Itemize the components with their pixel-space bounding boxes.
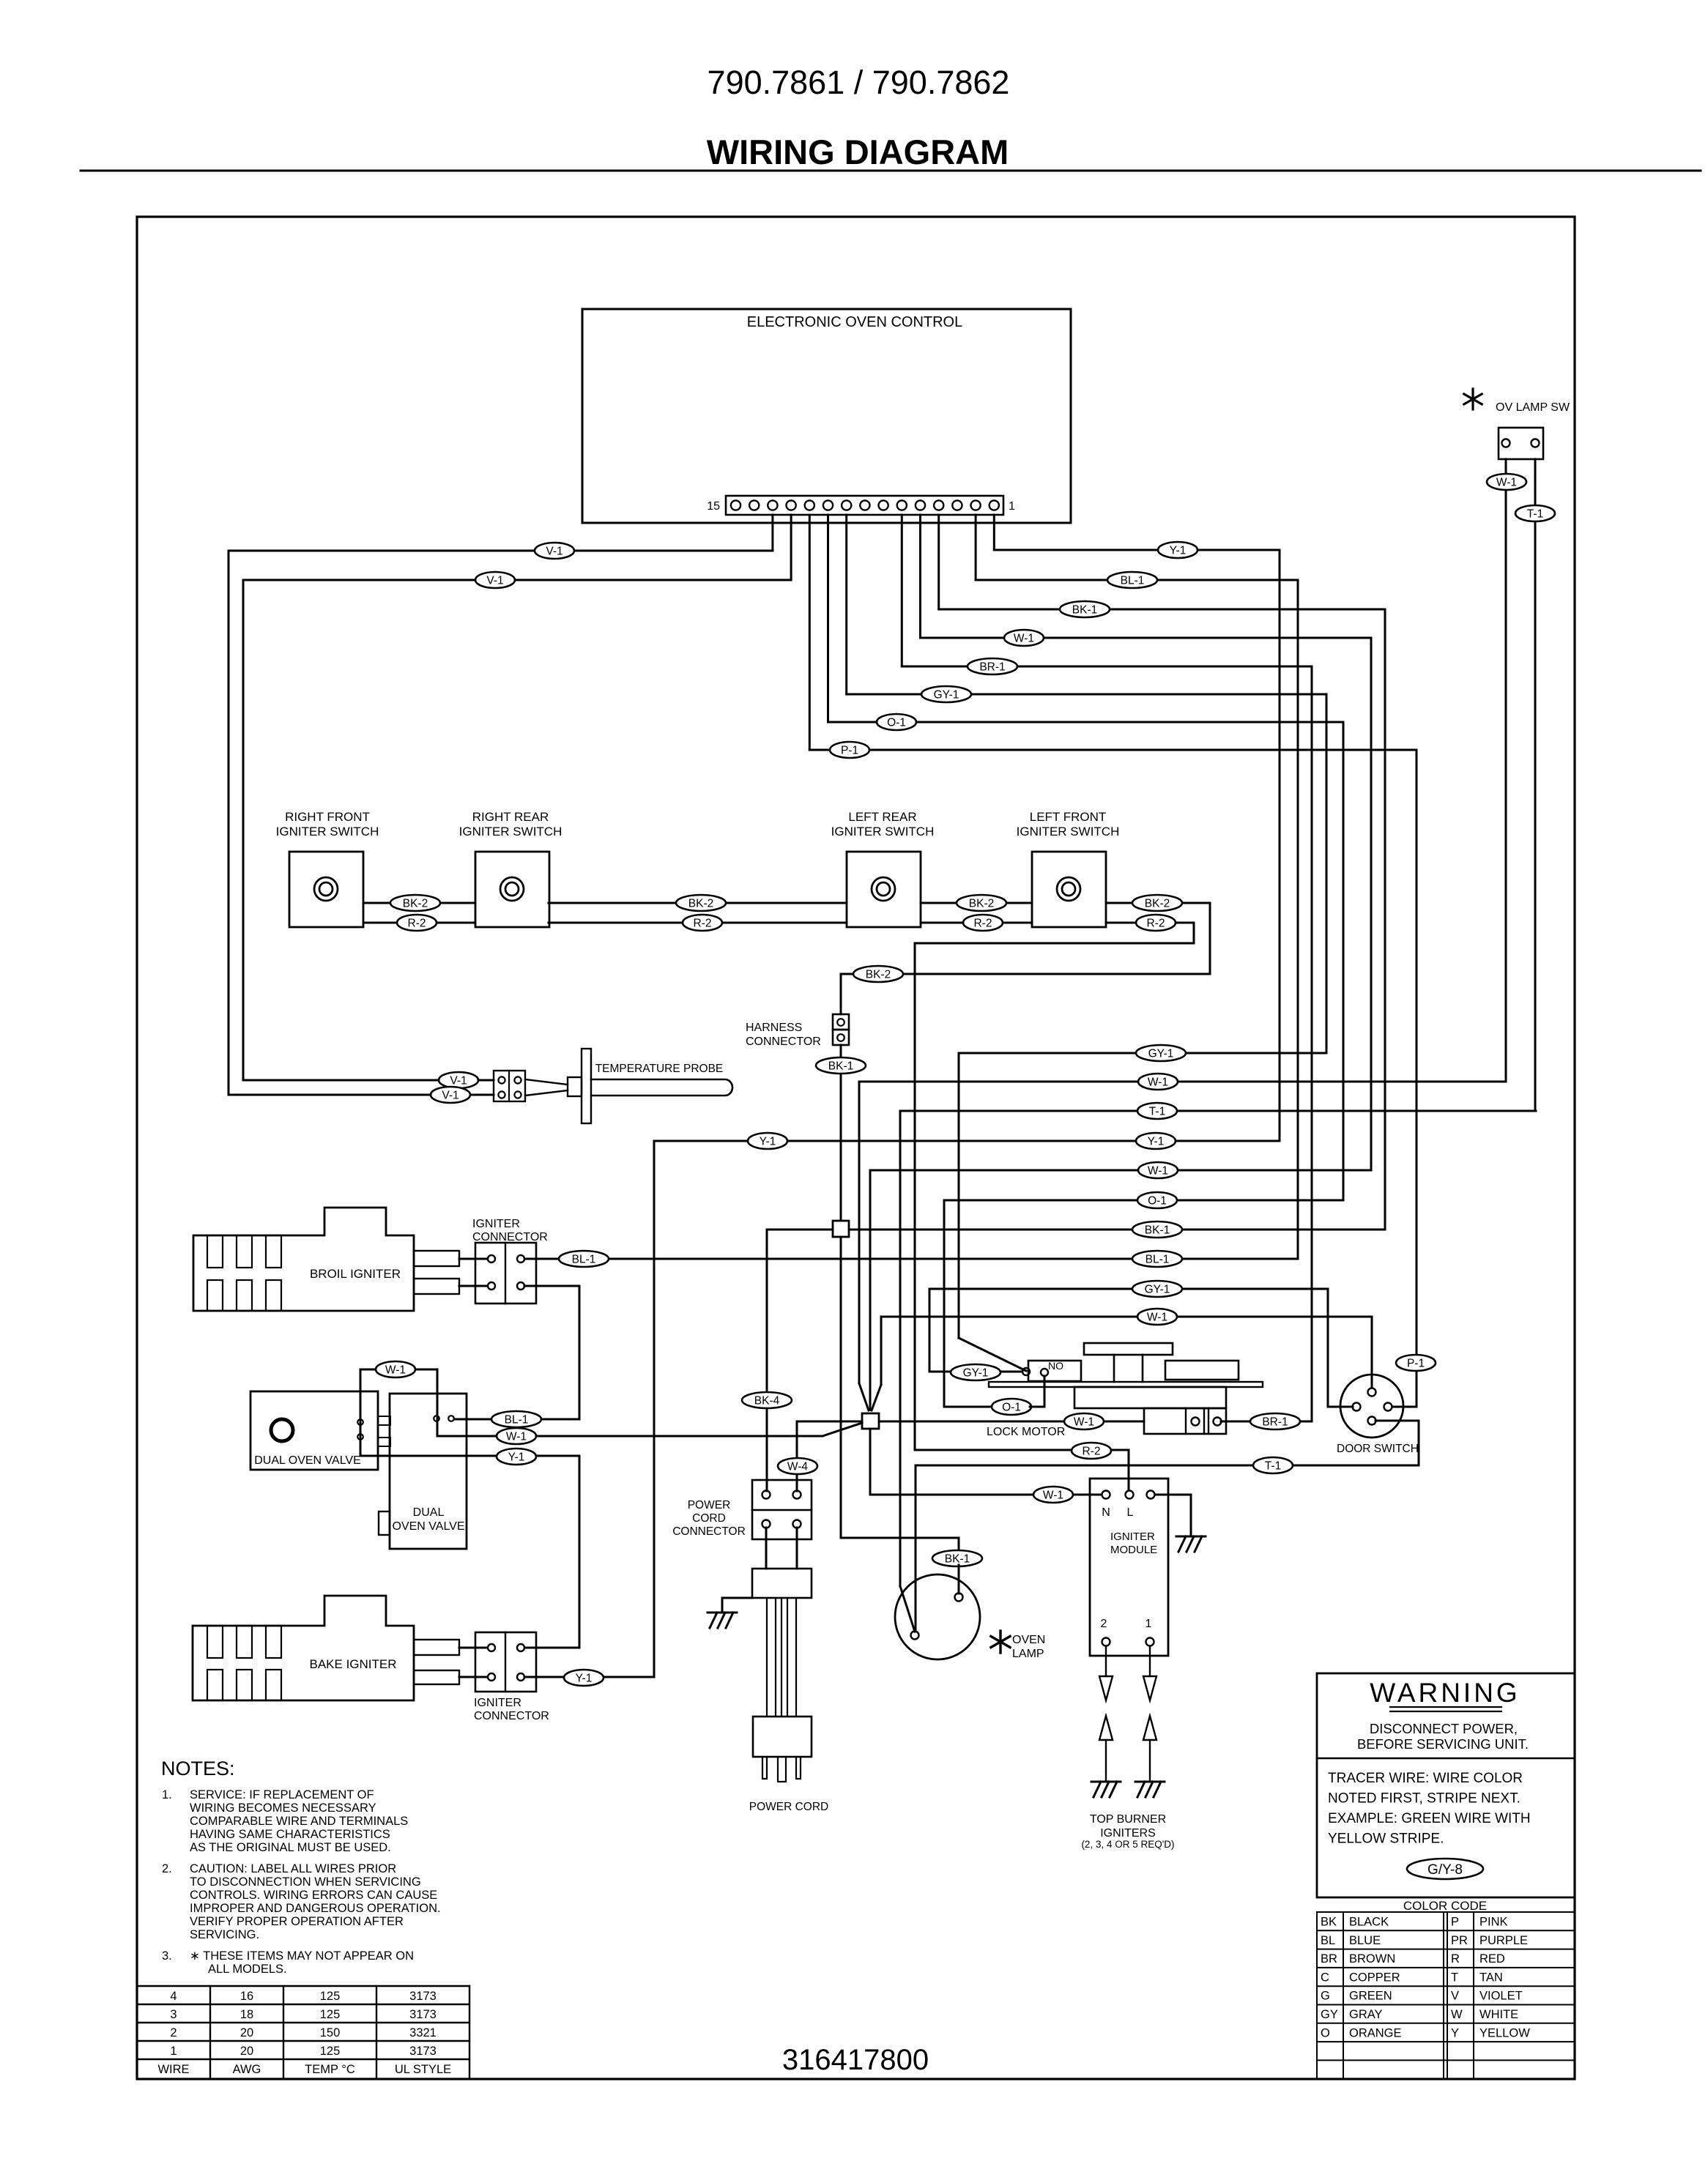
svg-text:150: 150 xyxy=(320,2026,341,2039)
svg-text:3173: 3173 xyxy=(409,1990,437,2003)
svg-text:T-1: T-1 xyxy=(1265,1460,1281,1473)
svg-text:W-1: W-1 xyxy=(1147,1312,1167,1324)
svg-text:NOTED FIRST, STRIPE NEXT.: NOTED FIRST, STRIPE NEXT. xyxy=(1328,1791,1521,1807)
svg-text:P-1: P-1 xyxy=(1407,1358,1425,1370)
svg-text:R: R xyxy=(1451,1952,1460,1966)
svg-text:GY-1: GY-1 xyxy=(1148,1048,1174,1060)
svg-text:V-1: V-1 xyxy=(546,546,562,558)
lock motor top bar xyxy=(1084,1343,1173,1355)
wire W-1 vertical xyxy=(1370,638,1373,1170)
svg-text:O-1: O-1 xyxy=(887,717,906,729)
svg-text:GY-1: GY-1 xyxy=(963,1367,989,1380)
EOC pin 15 xyxy=(731,500,740,510)
svg-text:TO DISCONNECTION WHEN SERVI: TO DISCONNECTION WHEN SERVICING xyxy=(190,1875,421,1889)
svg-text:BL: BL xyxy=(1321,1934,1335,1947)
wire W-1 door switch row xyxy=(881,1316,1372,1318)
wire W-4 branch to junction xyxy=(797,1421,862,1423)
EOC pin 6 xyxy=(897,500,907,510)
wire Y-1 valve row xyxy=(360,1455,579,1457)
svg-text:2.: 2. xyxy=(162,1862,172,1875)
warning box xyxy=(1317,1673,1575,1897)
module pin 1 xyxy=(1146,1638,1154,1646)
wire top burner igniter xyxy=(1149,1740,1151,1780)
wire BK-1 into oval xyxy=(958,1538,960,1552)
wire label BL-1 xyxy=(1132,1251,1182,1267)
svg-text:O: O xyxy=(1321,2026,1330,2039)
asterisk OV lamp sw xyxy=(1464,389,1482,409)
lock motor right block xyxy=(1165,1361,1239,1380)
svg-text:POWER: POWER xyxy=(688,1499,731,1511)
valve tab lower xyxy=(378,1438,390,1446)
wire BK-1 vertical xyxy=(1384,609,1386,1230)
wire GY-1 top row xyxy=(847,693,1326,696)
wire top burner igniter xyxy=(1105,1740,1107,1780)
svg-text:VERIFY PROPER OPERATION AFT: VERIFY PROPER OPERATION AFTER xyxy=(190,1915,404,1928)
svg-text:(2, 3, 4 OR 5 REQ'D): (2, 3, 4 OR 5 REQ'D) xyxy=(1081,1839,1174,1850)
solenoid divider 2 xyxy=(1203,1408,1205,1434)
svg-text:BAKE IGNITER: BAKE IGNITER xyxy=(309,1657,396,1671)
LEFT REAR igniter switch box xyxy=(847,852,921,927)
EOC pin 10 xyxy=(823,500,833,510)
module pin N xyxy=(1102,1491,1110,1499)
wire pin 6 drop xyxy=(901,515,903,666)
svg-text:IGNITER: IGNITER xyxy=(1110,1531,1155,1543)
wire T-1 drop xyxy=(899,1111,902,1586)
wire R-2 into L pin xyxy=(1128,1450,1130,1490)
junction square W-1 xyxy=(862,1413,879,1429)
wire label P-1 xyxy=(830,742,869,758)
wire label Y-1 xyxy=(497,1448,536,1465)
harness contact upper xyxy=(837,1019,844,1026)
oven lamp circle xyxy=(895,1574,980,1659)
svg-text:LEFT REAR: LEFT REAR xyxy=(848,810,916,824)
svg-text:YELLOW STRIPE.: YELLOW STRIPE. xyxy=(1328,1831,1444,1847)
svg-text:BK-1: BK-1 xyxy=(1072,604,1097,617)
solenoid divider 1 xyxy=(1185,1408,1187,1434)
wire T-1 mid row xyxy=(900,1110,1536,1112)
svg-text:CORD: CORD xyxy=(692,1512,726,1525)
wire label BK-1 xyxy=(932,1550,982,1566)
igniter module box xyxy=(1090,1479,1168,1656)
electronic oven control box xyxy=(582,309,1071,523)
strain relief lower xyxy=(753,1717,812,1757)
svg-text:DOOR SWITCH: DOOR SWITCH xyxy=(1337,1443,1419,1455)
ground power cord xyxy=(708,1613,737,1628)
solenoid contact right xyxy=(1214,1418,1222,1426)
dual oven valve box xyxy=(250,1391,378,1470)
svg-text:R-2: R-2 xyxy=(1083,1446,1101,1458)
wire O-1 mid row xyxy=(944,1200,1343,1202)
broil terminal upper xyxy=(414,1251,459,1266)
wire label BK-1 xyxy=(816,1057,866,1074)
wire BK-1 top row xyxy=(939,609,1385,611)
svg-text:CONNECTOR: CONNECTOR xyxy=(472,1231,548,1243)
wire Y-1 long vertical xyxy=(653,1141,656,1677)
svg-text:Y-1: Y-1 xyxy=(576,1673,593,1685)
svg-text:IMPROPER AND DANGEROUS OPER: IMPROPER AND DANGEROUS OPERATION. xyxy=(190,1902,441,1915)
wire module ground drop xyxy=(1190,1495,1192,1536)
wire label W-1 xyxy=(1138,1074,1178,1090)
svg-text:V-1: V-1 xyxy=(486,575,503,587)
svg-text:ELECTRONIC OVEN CONTROL: ELECTRONIC OVEN CONTROL xyxy=(747,314,962,330)
wire V-1 to probe upper xyxy=(243,1079,494,1082)
wire T-1 diagonal to lamp xyxy=(900,1586,915,1632)
wire P-1 top row xyxy=(809,749,1416,751)
temperature probe connector xyxy=(494,1071,525,1101)
wire BL-1 vertical to valve xyxy=(579,1286,581,1419)
main border frame xyxy=(137,217,1575,2079)
valve contact lower xyxy=(357,1434,363,1440)
svg-text:Y-1: Y-1 xyxy=(760,1136,776,1148)
LEFT REAR switch symbol inner xyxy=(877,882,890,896)
power cord connector box xyxy=(752,1480,812,1539)
ground top burner igniter xyxy=(1091,1782,1121,1797)
wire W-1 diagonal to junction xyxy=(823,1423,862,1436)
wire label R-2 xyxy=(683,915,722,931)
LEFT FRONT switch symbol inner xyxy=(1062,882,1075,896)
wire label W-1 xyxy=(1033,1487,1073,1503)
svg-text:HAVING SAME CHARACTERISTICS: HAVING SAME CHARACTERISTICS xyxy=(190,1828,390,1841)
wire ground stub drop xyxy=(721,1598,724,1613)
svg-text:BK-1: BK-1 xyxy=(828,1060,853,1073)
wire W-1 valve row xyxy=(437,1435,823,1438)
wire label BK-1 xyxy=(1060,601,1110,617)
svg-text:1.: 1. xyxy=(162,1788,172,1801)
wire V-1 row lower xyxy=(243,579,791,581)
svg-text:15: 15 xyxy=(707,500,720,513)
wire label T-1 xyxy=(1253,1457,1293,1473)
wire O-1 riser to NO contact xyxy=(1044,1376,1046,1407)
wire label V-1 xyxy=(439,1072,478,1088)
wire V-1 row upper xyxy=(229,550,773,552)
wire pin 9 drop xyxy=(845,515,847,694)
svg-text:1: 1 xyxy=(170,2045,177,2058)
temperature probe body xyxy=(525,1079,568,1085)
EOC pin 8 xyxy=(860,500,869,510)
arrow down xyxy=(1099,1676,1113,1700)
EOC pin 4 xyxy=(934,500,943,510)
wire BK-4 branch xyxy=(767,1229,833,1231)
dual oven valve port xyxy=(271,1419,293,1441)
lock motor leg right xyxy=(1142,1355,1144,1382)
svg-text:SERVICE: IF REPLACEMENT OF: SERVICE: IF REPLACEMENT OF xyxy=(190,1788,374,1801)
svg-text:COLOR CODE: COLOR CODE xyxy=(1403,1899,1487,1913)
wire label W-1 xyxy=(1487,474,1526,490)
wire V-1 left vertical inner xyxy=(242,580,245,1080)
arrow up xyxy=(1143,1716,1156,1740)
wire module output xyxy=(1149,1646,1151,1676)
broil igniter xyxy=(193,1208,414,1311)
wire label O-1 xyxy=(877,714,916,730)
svg-text:2: 2 xyxy=(170,2026,177,2039)
wire label O-1 xyxy=(1137,1192,1177,1208)
wire BL-1 broil row xyxy=(526,1258,1298,1260)
svg-text:R-2: R-2 xyxy=(408,918,426,930)
power cord wires xyxy=(766,1598,768,1717)
wire gauge table xyxy=(137,1985,469,1987)
wire pin 12 drop xyxy=(790,515,792,580)
bake igniter slot top xyxy=(266,1626,281,1658)
svg-text:BK-2: BK-2 xyxy=(1145,898,1170,910)
wire Y-1 top row xyxy=(994,549,1280,551)
wire label V-1 xyxy=(431,1087,470,1103)
wire label T-1 xyxy=(1515,505,1555,521)
wire R-2 to igniter module xyxy=(915,1449,1129,1451)
wire label Y-1 xyxy=(1158,542,1198,558)
wire label W-1 xyxy=(497,1428,536,1444)
svg-text:G/Y-8: G/Y-8 xyxy=(1427,1862,1463,1878)
svg-text:316417800: 316417800 xyxy=(782,2044,929,2076)
svg-text:CONTROLS. WIRING ERRORS C: CONTROLS. WIRING ERRORS CAN CAUSE xyxy=(190,1889,437,1902)
wire GY-1 lever diagonal xyxy=(959,1338,1026,1371)
wire W-1 valve right drop xyxy=(437,1369,439,1436)
wire label BK-4 xyxy=(742,1392,792,1408)
wire BK-2 rail xyxy=(1106,902,1210,904)
wire W-1 drop right xyxy=(880,1317,883,1385)
valve contact upper xyxy=(357,1419,363,1425)
wire broil to connector lower xyxy=(459,1285,486,1287)
svg-text:G: G xyxy=(1321,1990,1330,2003)
RIGHT FRONT switch symbol outer xyxy=(314,877,338,901)
NO contact xyxy=(1041,1369,1048,1376)
wire W-1 valve top xyxy=(360,1369,437,1371)
svg-text:Y-1: Y-1 xyxy=(1148,1136,1165,1148)
wire label W-1 xyxy=(1004,630,1044,646)
wire connector to strain relief left xyxy=(765,1528,768,1569)
svg-text:GY: GY xyxy=(1321,2008,1338,2021)
svg-text:POWER CORD: POWER CORD xyxy=(749,1801,829,1813)
svg-text:CONNECTOR: CONNECTOR xyxy=(746,1035,821,1048)
svg-text:GY-1: GY-1 xyxy=(1145,1284,1170,1296)
svg-text:O-1: O-1 xyxy=(1148,1195,1167,1208)
wire label O-1 xyxy=(992,1399,1031,1415)
svg-text:BK-4: BK-4 xyxy=(754,1395,780,1407)
wire W-1 lock motor row xyxy=(879,1421,1144,1423)
svg-text:LEFT FRONT: LEFT FRONT xyxy=(1030,810,1107,824)
svg-text:CONNECTOR: CONNECTOR xyxy=(474,1710,549,1722)
wire label V-1 xyxy=(535,543,574,559)
wire Y-1 mid row xyxy=(654,1140,1280,1142)
wire GY-1 drop to oval xyxy=(929,1289,931,1372)
svg-text:BR: BR xyxy=(1321,1952,1337,1966)
door switch circle xyxy=(1340,1375,1403,1438)
EOC pin 11 xyxy=(805,500,814,510)
svg-text:DISCONNECT POWER,: DISCONNECT POWER, xyxy=(1370,1721,1518,1736)
ground top burner igniter xyxy=(1135,1782,1165,1797)
svg-text:BL-1: BL-1 xyxy=(505,1414,529,1427)
svg-text:125: 125 xyxy=(320,1990,341,2003)
arrow down xyxy=(1143,1676,1156,1700)
wire label W-1 xyxy=(1064,1413,1104,1429)
wire label Y-1 xyxy=(1136,1133,1176,1149)
LEFT FRONT switch symbol outer xyxy=(1057,877,1080,901)
svg-text:16: 16 xyxy=(240,1990,253,2003)
ground igniter module xyxy=(1176,1536,1206,1552)
wire label P-1 xyxy=(1396,1355,1436,1371)
wire T-1 door switch drop xyxy=(1418,1421,1420,1465)
svg-text:ORANGE: ORANGE xyxy=(1349,2026,1402,2039)
wire broil to connector upper xyxy=(459,1258,486,1260)
svg-text:PR: PR xyxy=(1451,1934,1468,1947)
wire GY-1 to NO common xyxy=(929,1371,1022,1373)
wire pin 10 drop xyxy=(827,515,829,722)
svg-text:LAMP: LAMP xyxy=(1012,1648,1044,1660)
svg-text:BK: BK xyxy=(1321,1916,1337,1929)
lock motor leg left xyxy=(1113,1355,1115,1382)
svg-text:TAN: TAN xyxy=(1479,1971,1503,1984)
OV lamp switch box xyxy=(1499,428,1543,459)
wire W-1 drop to junction xyxy=(858,1082,861,1383)
wire module output xyxy=(1105,1646,1107,1676)
wire W-1 to igniter module row xyxy=(869,1429,872,1495)
asterisk oven lamp xyxy=(991,1631,1010,1653)
svg-text:UL STYLE: UL STYLE xyxy=(395,2063,451,2076)
svg-text:20: 20 xyxy=(240,2045,253,2058)
harness contact lower xyxy=(837,1034,844,1041)
LEFT FRONT igniter switch box xyxy=(1032,852,1106,927)
wire BK-1 mid row xyxy=(849,1229,1385,1231)
wire GY-1 drop to door switch xyxy=(1327,1289,1329,1407)
wire BK-1 down to lamp xyxy=(840,1237,842,1538)
svg-text:3173: 3173 xyxy=(409,2008,437,2021)
lock motor body box xyxy=(1074,1387,1226,1408)
wire W-1 funnel right xyxy=(872,1385,881,1410)
svg-text:MODULE: MODULE xyxy=(1110,1544,1157,1556)
svg-text:T-1: T-1 xyxy=(1527,508,1543,521)
broil igniter slot bottom xyxy=(207,1280,223,1311)
warning underline 1 xyxy=(1390,1706,1501,1708)
wire W-1 into door switch top xyxy=(1371,1317,1373,1388)
svg-text:125: 125 xyxy=(320,2045,341,2058)
wire label BL-1 xyxy=(559,1251,609,1267)
arrow up xyxy=(1099,1716,1113,1740)
wire label BK-1 xyxy=(1132,1221,1182,1238)
broil igniter slot top xyxy=(207,1235,223,1268)
bake igniter slot top xyxy=(207,1626,223,1658)
svg-text:W-1: W-1 xyxy=(385,1364,406,1377)
wire T-1 to oven lamp xyxy=(915,1465,917,1632)
svg-text:4: 4 xyxy=(170,1990,177,2003)
bake terminal lower xyxy=(414,1670,459,1684)
svg-text:BEFORE SERVICING UNIT.: BEFORE SERVICING UNIT. xyxy=(1357,1736,1529,1752)
dual oven valve 2 box xyxy=(390,1394,467,1549)
svg-text:125: 125 xyxy=(320,2008,341,2021)
wire label BL-1 xyxy=(1107,572,1157,588)
wire BK-2 rail xyxy=(363,902,475,904)
svg-text:3.: 3. xyxy=(162,1949,172,1963)
RIGHT REAR switch symbol inner xyxy=(505,882,519,896)
wire pin 5 drop xyxy=(919,515,921,638)
wire label W-4 xyxy=(778,1458,817,1474)
EOC pin 2 xyxy=(971,500,981,510)
svg-text:YELLOW: YELLOW xyxy=(1479,2026,1530,2039)
svg-text:T-1: T-1 xyxy=(1149,1106,1165,1118)
wire label W-1 xyxy=(376,1361,415,1377)
svg-text:W-1: W-1 xyxy=(1074,1416,1094,1429)
wire BL-1 valve row xyxy=(455,1418,579,1421)
wire label R-2 xyxy=(963,915,1003,931)
svg-text:IGNITER: IGNITER xyxy=(474,1697,521,1709)
broil igniter slot top xyxy=(266,1235,281,1268)
svg-text:BLUE: BLUE xyxy=(1349,1934,1381,1947)
svg-text:1: 1 xyxy=(1009,500,1015,513)
wire O-1 drop xyxy=(943,1200,946,1407)
svg-text:WIRING BECOMES NECESSARY: WIRING BECOMES NECESSARY xyxy=(190,1801,376,1815)
svg-text:WARNING: WARNING xyxy=(1370,1678,1520,1708)
svg-text:Y: Y xyxy=(1451,2026,1459,2039)
svg-text:W-1: W-1 xyxy=(1496,477,1517,489)
power cord prongs xyxy=(762,1757,767,1779)
svg-text:PURPLE: PURPLE xyxy=(1479,1934,1528,1947)
svg-text:OV LAMP SW: OV LAMP SW xyxy=(1496,401,1570,414)
wire O-1 to NO contact xyxy=(1030,1406,1044,1408)
svg-text:RIGHT REAR: RIGHT REAR xyxy=(472,810,549,824)
wire T-1 from OV lamp sw xyxy=(1534,459,1537,1111)
svg-text:Y-1: Y-1 xyxy=(1170,545,1187,557)
svg-text:COPPER: COPPER xyxy=(1349,1971,1400,1984)
svg-text:AS THE ORIGINAL MUST BE U: AS THE ORIGINAL MUST BE USED. xyxy=(190,1841,391,1854)
svg-text:RED: RED xyxy=(1479,1952,1505,1966)
svg-text:3321: 3321 xyxy=(409,2026,437,2039)
svg-text:R-2: R-2 xyxy=(694,918,712,930)
wire label W-1 xyxy=(1137,1309,1177,1325)
wire R-2 rail xyxy=(549,922,847,924)
wire GY-1 drop to lever xyxy=(958,1053,960,1338)
igniter connector bake box xyxy=(475,1632,536,1692)
module pin 2 xyxy=(1102,1638,1110,1646)
svg-text:TRACER WIRE: WIRE COLOR: TRACER WIRE: WIRE COLOR xyxy=(1328,1771,1523,1786)
svg-text:NOTES:: NOTES: xyxy=(161,1758,235,1780)
wire T-1 from door switch xyxy=(1375,1420,1419,1422)
wire BK-2 return row xyxy=(841,973,1210,975)
wire label BR-1 xyxy=(968,658,1017,674)
solenoid divider 3 xyxy=(1208,1408,1209,1434)
wire W-1 valve left drop xyxy=(360,1369,362,1456)
wire label BK-2 xyxy=(957,895,1006,911)
wire bake to connector upper xyxy=(459,1647,486,1649)
wire pin 4 drop xyxy=(937,515,940,609)
wire label W-1 xyxy=(1138,1162,1178,1178)
EOC pin 1 xyxy=(989,500,999,510)
title rule xyxy=(81,170,1701,172)
svg-text:R-2: R-2 xyxy=(974,918,992,930)
svg-text:WIRING DIAGRAM: WIRING DIAGRAM xyxy=(707,133,1009,171)
warning divider xyxy=(1317,1758,1573,1760)
svg-text:V: V xyxy=(1451,1990,1459,2003)
EOC pin 13 xyxy=(768,500,777,510)
wire label V-1 xyxy=(475,572,515,588)
NO common contact xyxy=(1022,1368,1030,1375)
wire BK-2 into harness connector xyxy=(840,974,842,1014)
valve 2 contact right xyxy=(448,1416,454,1421)
wire GY-1 lower row xyxy=(929,1288,1328,1290)
RIGHT REAR switch symbol outer xyxy=(500,877,524,901)
svg-text:N: N xyxy=(1102,1506,1110,1519)
wire O-1 to oval xyxy=(944,1406,993,1408)
wire ground stub xyxy=(722,1597,752,1599)
svg-text:Y-1: Y-1 xyxy=(508,1451,525,1464)
svg-text:P: P xyxy=(1451,1916,1459,1929)
EOC connector strip xyxy=(726,496,1003,515)
wire Y-1 vertical xyxy=(1279,550,1281,1141)
oven lamp contact right xyxy=(955,1593,963,1602)
svg-text:V-1: V-1 xyxy=(442,1090,458,1102)
temperature probe tube xyxy=(591,1079,732,1096)
temperature probe flange xyxy=(582,1049,591,1123)
wire BK-1 to lamp contact xyxy=(958,1565,960,1593)
wire GY-1 mid row xyxy=(959,1052,1326,1055)
svg-text:ALL MODELS.: ALL MODELS. xyxy=(208,1963,287,1976)
